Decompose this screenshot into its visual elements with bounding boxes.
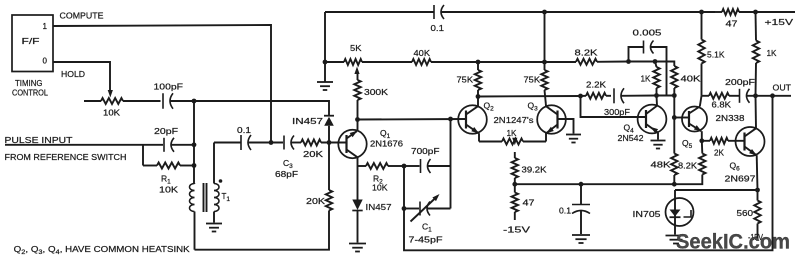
node dot Q1 base junction (327, 140, 332, 145)
svg-text:OUT: OUT (773, 83, 792, 93)
node dot rail drop (542, 60, 547, 65)
svg-text:CONTROL: CONTROL (12, 88, 48, 98)
node dot 1K top (653, 59, 658, 64)
wiper arrow onto R 10K (108, 90, 113, 98)
resistor 2K (702, 138, 745, 144)
resistor 39.2K (512, 158, 518, 184)
label CONTROL (12, 88, 48, 98)
capacitor 0.1 (coupling) (241, 135, 283, 150)
label Q5 (682, 138, 693, 150)
resistor 1K (Q4 load) (653, 62, 659, 96)
capacitor 0.1 (top) (434, 5, 715, 19)
label 1K (Q4 load) (641, 74, 651, 84)
svg-text:68pF: 68pF (275, 169, 298, 179)
resistor 40K (right) (671, 66, 677, 96)
wire T1 secondary bottom (213, 212, 215, 223)
ground Q4 emitter (651, 141, 666, 149)
svg-text:0: 0 (43, 57, 48, 66)
svg-text:HOLD: HOLD (61, 69, 85, 79)
label TIMING (15, 78, 43, 88)
label 5.1K (707, 50, 725, 60)
wire to OUT terminal (756, 95, 773, 97)
node dot compute/C3 wire (269, 140, 274, 145)
label 0.005 (633, 28, 662, 38)
node dot rail/1K (753, 10, 758, 15)
node dot Q1 emitter / 300K (355, 117, 360, 122)
resistor R1 10K (143, 163, 194, 169)
label R1 (161, 174, 171, 186)
resistor 300K (354, 72, 360, 120)
ground Q3 base (566, 135, 581, 143)
label PULSE INPUT (5, 135, 73, 145)
svg-text:20K: 20K (306, 196, 325, 206)
svg-text:COMPUTE: COMPUTE (60, 10, 104, 20)
node dot Q6 collector/OUT (753, 93, 758, 98)
label 1N705 (633, 209, 661, 219)
svg-text:8.2K: 8.2K (678, 161, 697, 171)
node dot 40K bottom (672, 93, 677, 98)
svg-text:IN457: IN457 (292, 116, 323, 126)
svg-text:1K: 1K (767, 48, 777, 58)
node dot Q5 base (672, 115, 677, 120)
transformer T1 primary winding (190, 184, 195, 212)
capacitor 200pF (740, 89, 756, 103)
capacitor C3 68pF (284, 136, 301, 150)
note common heatsink (14, 244, 190, 256)
node dot Q6 emitter (755, 188, 760, 193)
svg-text:20pF: 20pF (154, 126, 178, 136)
svg-text:0.1: 0.1 (431, 23, 445, 33)
label 40K (right) (681, 74, 701, 84)
transistor Q1 2N1676 (338, 120, 366, 167)
svg-text:47: 47 (726, 19, 738, 29)
resistor 40K (upper left) (412, 59, 478, 65)
transistor Q2 2N1247 (458, 97, 487, 142)
wire bias rail (515, 175, 703, 185)
wire C3 net (214, 142, 241, 144)
svg-text:F/F: F/F (22, 36, 40, 46)
svg-text:2N542: 2N542 (618, 133, 644, 143)
label 0.1 (top) (431, 23, 445, 33)
label C3 (283, 158, 293, 170)
node dot 5K/ground (323, 60, 328, 65)
label Q2 (484, 101, 495, 113)
label 2K (714, 148, 724, 158)
label 700pF (411, 146, 440, 156)
label 1N457 (CR2) (366, 202, 392, 212)
label 47 (to -15V) (523, 198, 535, 208)
label 1K (output load) (767, 48, 777, 58)
transistor Q4 2N542 (638, 96, 667, 140)
wire 545 to 8.2K (545, 61, 577, 63)
label 7-45pF (409, 235, 443, 245)
pin label 0 (43, 57, 48, 66)
svg-text:SeekIC.com: SeekIC.com (676, 231, 790, 254)
wire 700pF to Q2 base (450, 119, 452, 166)
node dot 0.005 left (626, 59, 631, 64)
label 100pF (154, 82, 184, 92)
wire 8.2K to 1K (629, 61, 656, 63)
label 10K (R1) (159, 185, 178, 195)
resistor 47 (to -15V) (512, 184, 518, 220)
label FROM REFERENCE SWITCH (5, 152, 127, 162)
label R2 (373, 174, 383, 186)
svg-text:2K: 2K (714, 148, 724, 158)
svg-text:5.1K: 5.1K (707, 50, 725, 60)
transformer T1 secondary winding (214, 143, 219, 212)
svg-text:IN457: IN457 (366, 202, 392, 212)
label C1 (422, 222, 432, 234)
wire emitters (479, 141, 502, 143)
zener diode 1N705 (666, 190, 694, 235)
svg-text:75K: 75K (524, 75, 541, 85)
svg-text:100pF: 100pF (154, 82, 184, 92)
label OUT (773, 83, 792, 93)
resistor 10K (timing pot) (84, 98, 161, 104)
wire T1 primary bottom (194, 212, 196, 250)
label 560 (737, 208, 754, 218)
svg-text:7-45pF: 7-45pF (409, 235, 443, 245)
svg-text:48K: 48K (651, 160, 671, 170)
label 10K (R2) (372, 183, 388, 193)
node dot Q4 collector (654, 93, 659, 98)
wire rail drop x=545 (544, 12, 546, 62)
diode CR2 1N457 (down) (352, 166, 362, 243)
label 20K (upper) (303, 149, 323, 159)
resistor 2.2K (581, 93, 612, 99)
transformer T1 core (204, 183, 207, 212)
label 1N457 (CR1) (292, 116, 323, 126)
resistor 6.8K (709, 93, 739, 99)
node dot Q5 emitter (699, 138, 704, 143)
label 2N338 (716, 113, 745, 123)
svg-text:IN705: IN705 (633, 209, 661, 219)
pin label 1 (43, 22, 48, 31)
svg-text:+15V: +15V (765, 17, 794, 27)
wire parallel left leg (142, 145, 144, 166)
svg-text:2N1676: 2N1676 (370, 139, 403, 149)
label 2N542 (618, 133, 644, 143)
wire +15V rail (325, 11, 434, 13)
ground CR2 (349, 244, 366, 252)
watermark SeekIC.com (676, 231, 790, 254)
wire Q4 base drop (581, 96, 647, 117)
wire Q2 collector net (478, 95, 581, 98)
label Q1 (380, 128, 391, 140)
label 1K (pot) (507, 128, 517, 138)
label 48K (651, 160, 671, 170)
label COMPUTE (60, 10, 104, 20)
svg-text:40K: 40K (681, 74, 701, 84)
capacitor 300pF (614, 88, 657, 103)
node dot OUT feedback (770, 93, 775, 98)
label 0.1 (bypass) (559, 206, 571, 216)
svg-text:560: 560 (737, 208, 754, 218)
label 8.2K (top) (575, 48, 598, 58)
resistor 75K (left) (475, 62, 481, 97)
label Q6 (730, 161, 741, 173)
node dot 0.1 bypass (579, 182, 584, 187)
label T1 (222, 192, 231, 203)
label 68pF (275, 169, 298, 179)
svg-text:0.005: 0.005 (633, 28, 662, 38)
wire input node vertical (193, 101, 195, 184)
resistor 8.2K (top) (576, 59, 629, 65)
capacitor 20pF (143, 138, 194, 152)
transistor Q5 2N338 (674, 96, 707, 141)
label 5K (350, 43, 362, 53)
wire Q1 emitter to Q2 base (358, 118, 467, 121)
svg-text:2N697: 2N697 (725, 174, 756, 184)
svg-text:40K: 40K (414, 48, 431, 58)
capacitor 0.1 (bypass) (572, 184, 590, 234)
svg-text:1K: 1K (641, 74, 651, 84)
wire HOLD net (53, 62, 110, 91)
wire OUT row (702, 95, 710, 97)
wiper arrow 1K pot (512, 138, 517, 158)
label Q3 (528, 101, 539, 113)
capacitor 700pF (404, 159, 451, 173)
wire 40K to Q5 base (673, 96, 675, 118)
resistor 560 (754, 190, 760, 239)
label 39.2K (522, 165, 547, 175)
label 2N1676 (370, 139, 403, 149)
svg-text:20K: 20K (303, 149, 323, 159)
svg-text:2N1247's: 2N1247's (494, 115, 534, 125)
label 0.1 (coupling) (237, 125, 251, 135)
node dot R2/700pF (402, 164, 407, 169)
resistor 8.2K (Q5 emitter) (699, 141, 705, 175)
variable capacitor C1 7-45pF (404, 166, 451, 222)
svg-text:5K: 5K (350, 43, 362, 53)
svg-text:8.2K: 8.2K (575, 48, 598, 58)
svg-text:1K: 1K (507, 128, 517, 138)
resistor 20K (upper) (301, 140, 346, 146)
node dot rail/545 (542, 10, 547, 15)
wire top rail left leg (324, 12, 326, 62)
svg-text:0.1: 0.1 (559, 206, 571, 216)
node dot 100pF/junction (192, 99, 197, 104)
svg-text:2N338: 2N338 (716, 113, 745, 123)
ground T1 secondary (206, 224, 222, 232)
label 6.8K (712, 99, 732, 109)
svg-text:-15V: -15V (503, 225, 530, 235)
svg-text:10K: 10K (159, 185, 178, 195)
ground 0.1 bypass (572, 235, 590, 243)
svg-text:1: 1 (43, 22, 48, 31)
svg-text:300pF: 300pF (604, 107, 630, 117)
label 20K (lower) (306, 196, 325, 206)
svg-text:10K: 10K (103, 107, 120, 117)
flip-flop U1 TIMING CONTROL box (12, 15, 53, 72)
label 2N697 (725, 174, 756, 184)
wire feedback rail (404, 96, 773, 251)
label -15V (503, 225, 530, 235)
label 75K (left) (457, 75, 474, 85)
capacitor 100pF (163, 93, 194, 109)
label 300K (364, 87, 388, 97)
label 47 (rail) (726, 19, 738, 29)
node dot 48K bottom (672, 182, 677, 187)
node dot Q2 collector (476, 94, 481, 99)
wire 1K to 40K-2 (655, 62, 674, 67)
svg-text:75K: 75K (457, 75, 474, 85)
svg-text:10K: 10K (372, 183, 388, 193)
svg-text:47: 47 (523, 198, 535, 208)
node dot feedback tap (448, 117, 453, 122)
node dot 75K-1 top (476, 60, 481, 65)
label 40K (upper left) (414, 48, 431, 58)
svg-text:300K: 300K (364, 87, 388, 97)
svg-text:200pF: 200pF (725, 77, 755, 87)
wiper arrow onto 5K (354, 67, 359, 75)
diode CR1 1N457 (up) (324, 116, 334, 143)
label 8.2K (Q5 emitter) (678, 161, 697, 171)
wire timing net to diode (194, 101, 329, 115)
svg-text:2.2K: 2.2K (586, 80, 606, 90)
resistor 75K (right) (541, 62, 547, 104)
label 75K (right) (524, 75, 541, 85)
wire Q3 base to ground (558, 119, 574, 134)
label 300pF (604, 107, 630, 117)
svg-text:PULSE INPUT: PULSE INPUT (5, 135, 73, 145)
label HOLD (61, 69, 85, 79)
node dot R1 right (192, 163, 197, 168)
transistor Q6 2N697 (736, 96, 765, 190)
svg-text:6.8K: 6.8K (712, 99, 732, 109)
label 20pF (154, 126, 178, 136)
node dot 2.2K left (578, 94, 583, 99)
label 2N1247s (494, 115, 534, 125)
resistor 48K (671, 118, 677, 185)
label F/F (22, 36, 40, 46)
resistor R2 10K (358, 163, 405, 169)
transistor Q3 2N1247 (537, 104, 566, 142)
svg-text:39.2K: 39.2K (522, 165, 547, 175)
capacitor 0.005 (629, 41, 667, 96)
resistor 47 (rail) (715, 9, 795, 15)
resistor 5.1K (698, 12, 704, 96)
wire OUT stub (773, 95, 792, 97)
label 10K (103, 107, 120, 117)
wire bottom loop (195, 211, 330, 250)
label +15V (765, 17, 794, 27)
resistor 1K (output load) (753, 12, 759, 96)
resistor 20K (lower) (326, 143, 332, 211)
resistor 1K (pot) (502, 139, 546, 145)
svg-text:700pF: 700pF (411, 146, 440, 156)
label 2.2K (586, 80, 606, 90)
node dot rail/5.1K (699, 10, 704, 15)
ground at 5K (317, 62, 333, 90)
wire zener net (675, 189, 758, 191)
node dot 20pF right (192, 142, 197, 147)
resistor 5K (325, 59, 412, 65)
phasing dot T1 (219, 179, 223, 183)
svg-text:0.1: 0.1 (237, 125, 251, 135)
wire COMPUTE net (53, 25, 271, 143)
label Q4 (624, 123, 635, 135)
label 200pF (725, 77, 755, 87)
ground 1N705 (666, 236, 687, 244)
node dot C1 left (402, 206, 407, 211)
label -15V (under watermark) (748, 232, 763, 242)
node dot -15V node (512, 182, 517, 187)
svg-text:FROM REFERENCE SWITCH: FROM REFERENCE SWITCH (5, 152, 127, 162)
svg-text:TIMING: TIMING (15, 78, 43, 88)
wire 0.005 node (657, 95, 675, 97)
wire 40K to 545 (478, 61, 545, 63)
wire R2 node down (403, 166, 405, 209)
wire pulse input (5, 144, 143, 146)
